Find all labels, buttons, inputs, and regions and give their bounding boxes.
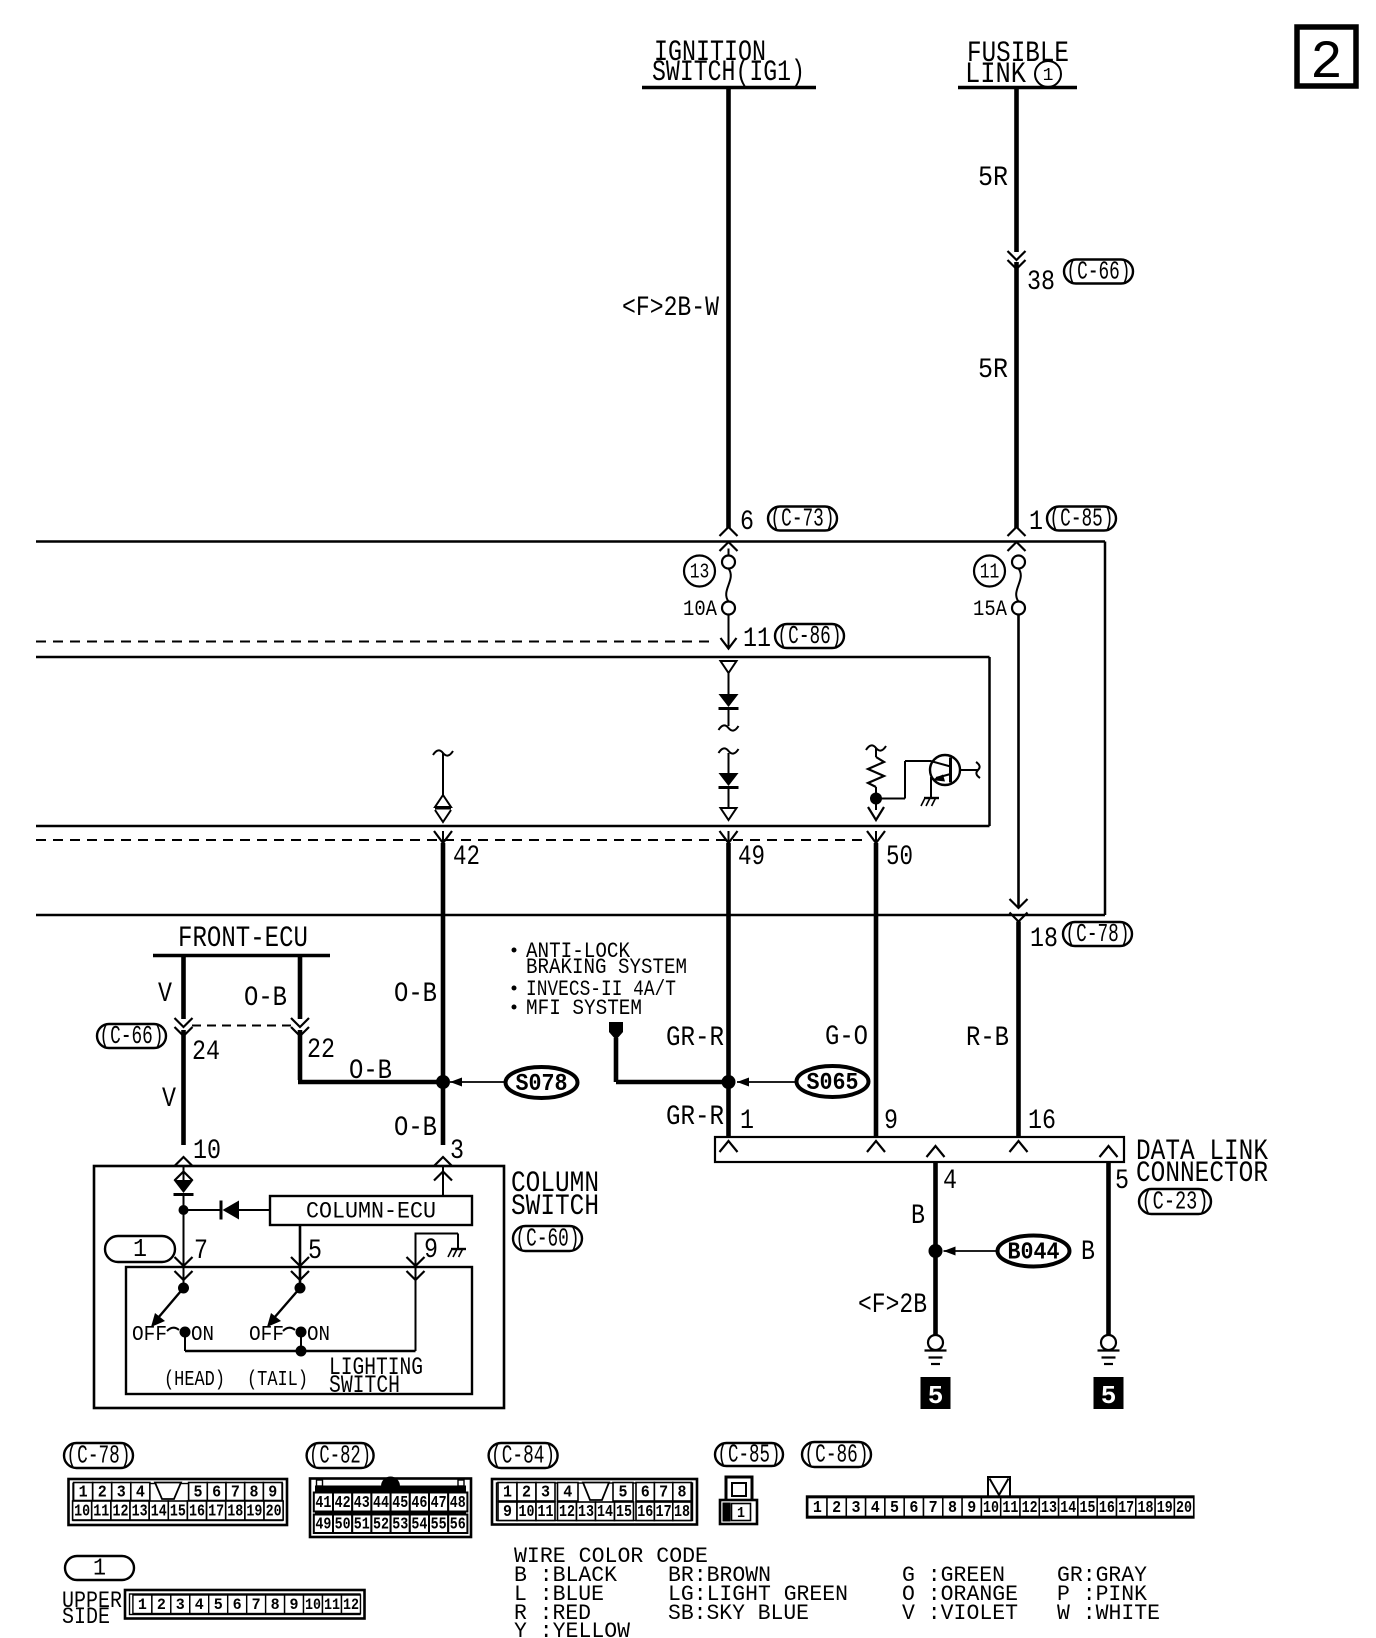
svg-text:17: 17 [656, 1503, 672, 1522]
connector arrows pin9 sw [407, 1257, 425, 1266]
svg-text:3: 3 [176, 1596, 185, 1614]
data link connector box [715, 1137, 1124, 1162]
svg-text:4: 4 [195, 1596, 204, 1614]
fuse 15A symbol [1012, 556, 1025, 569]
svg-text:41: 41 [315, 1494, 331, 1513]
svg-text:55: 55 [431, 1516, 447, 1535]
svg-text:COLUMN-ECU: COLUMN-ECU [306, 1199, 436, 1225]
svg-text:45: 45 [392, 1494, 408, 1513]
connector C-66 ref [1064, 260, 1133, 284]
svg-text:14: 14 [1060, 1499, 1076, 1518]
arrow pin 11 C-86 [721, 638, 737, 649]
svg-text:49: 49 [738, 842, 765, 873]
svg-text:13: 13 [690, 562, 710, 585]
svg-text:11: 11 [980, 562, 1000, 585]
connector triangle out of relay box [721, 808, 737, 820]
svg-text:42: 42 [453, 842, 480, 873]
svg-text:6: 6 [740, 507, 754, 538]
wire pin3 to column ECU [442, 1166, 444, 1196]
wire column ECU down pin5 [299, 1225, 302, 1288]
svg-text:4: 4 [871, 1499, 880, 1518]
wire V lower [181, 1030, 186, 1145]
svg-text:10: 10 [305, 1596, 321, 1614]
svg-text:1: 1 [79, 1483, 88, 1502]
svg-text:(C-78): (C-78) [1066, 919, 1130, 949]
svg-text:(C-86): (C-86) [805, 1440, 869, 1470]
svg-text:SWITCH: SWITCH [329, 1371, 400, 1400]
ground ref 5 right [1094, 1377, 1124, 1409]
connector C-84 label [489, 1443, 558, 1468]
svg-text:44: 44 [373, 1494, 389, 1513]
svg-text:14: 14 [597, 1503, 613, 1522]
svg-text:43: 43 [354, 1494, 370, 1513]
connector Y arrow 42 [434, 831, 452, 843]
svg-text:7: 7 [231, 1483, 240, 1502]
svg-text:9: 9 [884, 1106, 898, 1137]
svg-text:14: 14 [151, 1502, 167, 1521]
svg-text:W :WHITE: W :WHITE [1057, 1601, 1160, 1626]
wire break hook [719, 725, 739, 730]
svg-text:(C-73): (C-73) [771, 504, 835, 534]
svg-text:<F>2B: <F>2B [858, 1290, 927, 1321]
connector arrows pin 6 C-73 [720, 527, 738, 536]
connector triangle pair 42 [435, 795, 451, 807]
ground chassis (transistor) [924, 797, 939, 799]
splice junction S078 [436, 1075, 450, 1089]
connector C-85 label [715, 1443, 783, 1466]
wire R-B down to DLC [1016, 922, 1021, 1138]
wire diode to node [183, 1195, 185, 1288]
fuse 10A symbol [722, 556, 735, 569]
wire pin10 inside box [183, 1166, 185, 1180]
connector C-82 pinout [310, 1479, 471, 1538]
tail ON terminal [296, 1327, 307, 1338]
svg-text:(C-66): (C-66) [1067, 257, 1131, 287]
svg-text:9: 9 [268, 1483, 277, 1502]
connector C-85 pinout [726, 1477, 752, 1502]
svg-text:5: 5 [308, 1236, 322, 1267]
connector C-60 ref [513, 1226, 582, 1251]
connector C-23 ref [1139, 1189, 1211, 1214]
svg-text:3: 3 [450, 1136, 464, 1167]
connector arrows 38 C-66 [1008, 251, 1026, 260]
svg-text:50: 50 [886, 842, 913, 873]
ignition switch terminal bar [642, 86, 816, 90]
svg-text:B044: B044 [1008, 1240, 1060, 1267]
wire G-O 50 down [874, 843, 879, 1137]
dashed harness line lower [36, 839, 866, 841]
svg-text:12: 12 [559, 1503, 575, 1522]
diode D4 pointing left [220, 1201, 223, 1220]
svg-text:(C-66): (C-66) [100, 1021, 164, 1051]
svg-text:17: 17 [1118, 1499, 1134, 1518]
svg-text:FRONT-ECU: FRONT-ECU [178, 922, 308, 956]
svg-text:19: 19 [246, 1502, 262, 1521]
wire O-B horizontal to junction [298, 1080, 443, 1085]
svg-text:18: 18 [1030, 924, 1058, 955]
connector C-84 pinout [492, 1479, 697, 1525]
svg-text:15A: 15A [973, 597, 1008, 622]
wire to diode D1 [728, 673, 730, 694]
svg-text:5: 5 [890, 1499, 899, 1518]
transistor Q1 [930, 755, 960, 785]
svg-text:(C-23): (C-23) [1142, 1187, 1209, 1217]
svg-text:15: 15 [170, 1502, 186, 1521]
svg-text:5: 5 [928, 1381, 944, 1411]
head ON terminal [180, 1327, 191, 1338]
svg-text:16: 16 [189, 1502, 205, 1521]
svg-text:8: 8 [250, 1483, 259, 1502]
svg-text:9: 9 [503, 1503, 512, 1522]
ground point left [928, 1335, 943, 1350]
svg-text:20: 20 [1176, 1499, 1192, 1518]
svg-text:12: 12 [1022, 1499, 1038, 1518]
dashed connector line C-66 [192, 1025, 293, 1027]
lighting switch inner box [126, 1267, 472, 1394]
svg-text:54: 54 [411, 1516, 427, 1535]
tail switch blade [274, 1288, 300, 1318]
svg-text:13: 13 [132, 1502, 148, 1521]
svg-text:1: 1 [503, 1484, 512, 1503]
splice arrow B044 [944, 1250, 997, 1252]
svg-text:R-B: R-B [966, 1023, 1009, 1054]
svg-text:(TAIL): (TAIL) [247, 1369, 308, 1392]
svg-text:SB:SKY BLUE: SB:SKY BLUE [668, 1601, 809, 1626]
svg-text:(C-82): (C-82) [309, 1441, 371, 1471]
svg-text:15: 15 [616, 1503, 632, 1522]
connector arrows pin 3 [434, 1157, 452, 1166]
svg-text:O-B: O-B [394, 979, 437, 1010]
wire resistor to node [875, 787, 877, 798]
system list bullet 2 [512, 986, 517, 991]
connector C-78 pinout [69, 1479, 288, 1525]
connector C-78 label [64, 1443, 133, 1468]
fuse circuit 13 number [684, 556, 715, 587]
svg-text:G-O: G-O [825, 1022, 868, 1053]
connector C-86 ref top [775, 624, 844, 648]
svg-text:4: 4 [943, 1166, 957, 1197]
svg-text:S065: S065 [807, 1070, 859, 1097]
svg-text:19: 19 [1157, 1499, 1173, 1518]
svg-text:B: B [911, 1201, 925, 1232]
wire 5R from fusible link down [1014, 89, 1019, 252]
svg-text:52: 52 [373, 1516, 389, 1535]
fuse circuit 11 number [974, 556, 1005, 587]
wire from fuse 15A down [1017, 615, 1020, 909]
connector C-86 pinout [988, 1477, 1010, 1497]
svg-text:18: 18 [1137, 1499, 1153, 1518]
svg-text:OFF: OFF [249, 1324, 284, 1347]
connector triangle into relay box [721, 661, 737, 673]
svg-text:2: 2 [157, 1596, 166, 1614]
harness 1 label stadium [65, 1556, 134, 1580]
svg-text:1: 1 [1043, 66, 1054, 86]
svg-text:9: 9 [290, 1596, 299, 1614]
svg-text:<F>2B-W: <F>2B-W [622, 293, 719, 324]
connector arrows pin 10 [175, 1157, 193, 1166]
svg-text:2: 2 [1310, 33, 1342, 94]
splice B044 oval [998, 1236, 1070, 1267]
svg-text:46: 46 [411, 1494, 427, 1513]
connector arrows pin 1 C-85 [1008, 527, 1026, 536]
svg-text:5: 5 [619, 1484, 628, 1503]
svg-text:10: 10 [193, 1136, 221, 1167]
svg-text:4: 4 [563, 1484, 572, 1503]
svg-text:V: V [162, 1084, 176, 1115]
diode D2 [719, 773, 739, 786]
wire V from FRONT-ECU 24 [181, 957, 186, 1019]
wire break hook [719, 748, 739, 753]
junction block box bottom edge [36, 914, 1105, 917]
svg-text:11: 11 [324, 1596, 340, 1614]
wire from flag down [614, 1038, 619, 1082]
svg-text:8: 8 [271, 1596, 280, 1614]
tail switch tilde [283, 1328, 295, 1331]
svg-text:47: 47 [431, 1494, 447, 1513]
svg-text:3: 3 [851, 1499, 860, 1518]
wire break hook [866, 745, 886, 750]
relay box right edge [988, 657, 991, 826]
fusible link number 1 circle [1035, 61, 1061, 87]
wire stub 42 in relay box [442, 753, 444, 795]
DLC chevron pin 1 [720, 1141, 738, 1152]
pin 9 circuit loop [415, 1233, 417, 1267]
wire break hook [433, 750, 453, 755]
svg-text:(C-85): (C-85) [718, 1440, 781, 1470]
svg-text:15: 15 [1080, 1499, 1096, 1518]
svg-text:(C-60): (C-60) [516, 1224, 580, 1254]
svg-text:7: 7 [252, 1596, 261, 1614]
svg-text:(HEAD): (HEAD) [164, 1369, 225, 1392]
upper side pinout [125, 1590, 365, 1619]
svg-text:11: 11 [93, 1502, 109, 1521]
svg-text:1: 1 [740, 1106, 754, 1137]
COLUMN-ECU box [270, 1196, 472, 1225]
splice S078 oval [506, 1067, 578, 1098]
svg-text:V :VIOLET: V :VIOLET [902, 1601, 1018, 1626]
connector C-73 ref [768, 507, 837, 531]
junction node resistor-base [870, 793, 882, 805]
ground ref 5 left [921, 1377, 951, 1409]
svg-text:SWITCH: SWITCH [511, 1190, 599, 1224]
svg-text:O-B: O-B [394, 1113, 437, 1144]
svg-text:ON: ON [191, 1324, 214, 1347]
wire B pin4 down [933, 1162, 938, 1335]
DLC chevron pin 4 [927, 1146, 945, 1157]
connector C-78 ref [1063, 922, 1132, 946]
connector C-66 ref left [97, 1024, 166, 1048]
wire O-B 42 down [441, 843, 446, 1145]
svg-text:GR-R: GR-R [666, 1023, 724, 1054]
svg-text:18: 18 [227, 1502, 243, 1521]
svg-text:GR-R: GR-R [666, 1102, 724, 1133]
svg-text:O-B: O-B [349, 1056, 392, 1087]
resistor R1 [868, 757, 884, 787]
svg-text:38: 38 [1027, 267, 1055, 298]
dashed harness line C-86 [36, 641, 713, 643]
svg-text:Y :YELLOW: Y :YELLOW [514, 1619, 631, 1638]
diode D3 head lamp [174, 1180, 194, 1193]
svg-text:5: 5 [1115, 1166, 1129, 1197]
svg-text:16: 16 [1028, 1106, 1056, 1137]
junction block box top edge [36, 540, 1105, 543]
connector Y arrow 49 [720, 831, 738, 843]
svg-text:9: 9 [967, 1499, 976, 1518]
svg-text:13: 13 [1041, 1499, 1057, 1518]
wire from fuse 10A down [728, 615, 730, 649]
transistor collector wire [960, 769, 979, 771]
page number box 2 [1297, 27, 1356, 86]
svg-text:24: 24 [192, 1037, 220, 1068]
svg-text:16: 16 [637, 1503, 653, 1522]
svg-text:51: 51 [354, 1516, 370, 1535]
svg-text:18: 18 [674, 1503, 690, 1522]
connector arrows head sw [175, 1257, 193, 1266]
splice arrow S078 [450, 1081, 506, 1083]
head switch tilde [167, 1328, 179, 1331]
wire flag to junction [616, 1080, 729, 1085]
svg-text:4: 4 [136, 1483, 145, 1502]
junction node column [179, 1205, 189, 1215]
svg-text:5: 5 [214, 1596, 223, 1614]
wire from ignition switch IG1 down to junction block [726, 89, 731, 528]
svg-text:3: 3 [117, 1483, 126, 1502]
wire O-B from FRONT-ECU [298, 957, 303, 1019]
FRONT-ECU terminal bar [153, 954, 330, 958]
svg-text:3: 3 [541, 1484, 550, 1503]
svg-text:2: 2 [522, 1484, 531, 1503]
svg-text:10: 10 [74, 1502, 90, 1521]
wire pin5 down [1106, 1162, 1111, 1335]
svg-text:6: 6 [212, 1483, 221, 1502]
wire break hook collector [976, 762, 980, 778]
svg-text:(C-85): (C-85) [1050, 504, 1114, 534]
connector chevron 50 out of relay box [868, 807, 884, 820]
svg-text:S078: S078 [516, 1071, 568, 1098]
svg-text:1: 1 [737, 1505, 745, 1522]
ground point right [1101, 1335, 1116, 1350]
svg-text:8: 8 [678, 1484, 687, 1503]
harness ref 1 stadium [105, 1236, 175, 1262]
svg-text:10: 10 [983, 1499, 999, 1518]
svg-text:12: 12 [343, 1596, 359, 1614]
svg-text:22: 22 [307, 1035, 335, 1066]
head switch blade [158, 1288, 184, 1318]
head switch pivot [178, 1283, 189, 1294]
svg-text:1: 1 [133, 1234, 147, 1264]
system list bullet 3 [512, 1005, 517, 1010]
connector C-86 label [802, 1442, 871, 1467]
column switch box [94, 1166, 504, 1408]
connector arrows 24 [175, 1018, 193, 1027]
svg-text:7: 7 [659, 1484, 668, 1503]
svg-text:10A: 10A [683, 597, 718, 622]
svg-text:2: 2 [98, 1483, 107, 1502]
relay box bottom edge [36, 825, 990, 828]
connector arrows pin 18 C-78 [1010, 899, 1028, 908]
svg-text:B: B [1081, 1237, 1095, 1268]
transistor emitter to ground wire [930, 777, 932, 797]
rail junction tail [296, 1346, 307, 1357]
svg-text:(C-86): (C-86) [778, 621, 842, 651]
svg-text:6: 6 [909, 1499, 918, 1518]
wire to diode D2 [728, 753, 730, 773]
svg-text:12: 12 [112, 1502, 128, 1521]
connector arrows tail sw [291, 1257, 309, 1266]
svg-text:1: 1 [93, 1556, 106, 1583]
connector C-82 label [307, 1443, 374, 1468]
svg-text:6: 6 [641, 1484, 650, 1503]
DLC chevron pin 9 [867, 1141, 885, 1152]
connector arrows 22 [291, 1018, 309, 1027]
svg-text:MFI SYSTEM: MFI SYSTEM [526, 996, 642, 1021]
svg-text:(C-84): (C-84) [491, 1441, 555, 1471]
splice junction S065 [722, 1075, 736, 1089]
svg-text:11: 11 [538, 1503, 554, 1522]
svg-text:9: 9 [424, 1235, 438, 1266]
splice junction B044 [929, 1244, 943, 1258]
svg-text:7: 7 [194, 1236, 208, 1267]
svg-text:V: V [158, 979, 172, 1010]
wire diode D4 to column ECU [239, 1209, 270, 1211]
svg-text:49: 49 [315, 1516, 331, 1535]
svg-text:11: 11 [743, 624, 771, 655]
wire 5R below C-66 [1014, 262, 1019, 528]
svg-text:1: 1 [138, 1596, 147, 1614]
svg-text:10: 10 [519, 1503, 535, 1522]
wire node to diode D4 [184, 1209, 222, 1211]
wire below diode D1 [728, 709, 730, 726]
svg-text:1: 1 [1029, 507, 1043, 538]
svg-text:50: 50 [335, 1516, 351, 1535]
svg-text:11: 11 [1002, 1499, 1018, 1518]
svg-text:8: 8 [948, 1499, 957, 1518]
svg-text:2: 2 [832, 1499, 841, 1518]
system list bullet 1 [512, 948, 517, 953]
svg-text:5: 5 [193, 1483, 202, 1502]
system flag marker [609, 1022, 623, 1040]
svg-text:5R: 5R [978, 355, 1008, 386]
DLC chevron pin 16 [1010, 1141, 1028, 1152]
svg-text:16: 16 [1099, 1499, 1115, 1518]
svg-text:5: 5 [1101, 1381, 1117, 1411]
svg-text:13: 13 [578, 1503, 594, 1522]
switch common rail [184, 1332, 186, 1351]
wire GR-R 49 down [726, 843, 731, 1137]
splice S065 oval [797, 1066, 869, 1097]
wire into fuse 13 [728, 549, 730, 557]
svg-text:6: 6 [233, 1596, 242, 1614]
wire O-B from 22 down [298, 1030, 303, 1080]
junction block box right edge [1104, 542, 1107, 916]
svg-text:SWITCH(IG1): SWITCH(IG1) [652, 56, 805, 90]
svg-text:5R: 5R [978, 163, 1008, 194]
wire below diode D2 [728, 788, 730, 808]
DLC chevron pin 5 [1100, 1146, 1118, 1157]
wire node to transistor base [876, 798, 905, 800]
wire to resistor R1 [875, 748, 877, 757]
svg-text:OFF: OFF [132, 1324, 167, 1347]
diode D1 [719, 694, 739, 707]
svg-text:56: 56 [450, 1516, 466, 1535]
svg-text:(C-78): (C-78) [67, 1441, 131, 1471]
ground chassis (column) [451, 1248, 466, 1250]
svg-text:1: 1 [813, 1499, 822, 1518]
svg-text:SIDE: SIDE [62, 1604, 110, 1630]
svg-text:20: 20 [266, 1502, 282, 1521]
tail switch pivot [295, 1283, 306, 1294]
svg-text:53: 53 [392, 1516, 408, 1535]
